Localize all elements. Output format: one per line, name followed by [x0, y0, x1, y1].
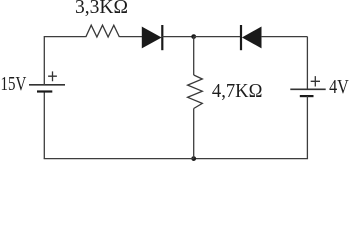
battery 15V positive plate (long) — [29, 84, 65, 86]
node A junction dot top — [191, 34, 196, 39]
wire bottom left — [44, 158, 194, 160]
svg-text:3,3KΩ: 3,3KΩ — [75, 0, 128, 18]
resistor 4,7K vertical — [188, 75, 203, 109]
svg-text:4,7KΩ: 4,7KΩ — [212, 81, 263, 102]
svg-text:4V: 4V — [329, 77, 349, 98]
wire resistor to diode D1 — [119, 36, 142, 38]
plus sign left battery — [48, 71, 57, 81]
wire D2 to top-right corner — [261, 36, 307, 38]
node B junction dot bottom — [191, 156, 196, 161]
wire left rail up to battery — [43, 92, 45, 159]
wire node A to diode D2 — [194, 36, 241, 38]
wire left battery up to top-left corner — [43, 36, 45, 85]
diode D1 triangle — [142, 27, 160, 47]
diode D2 cathode bar — [240, 25, 242, 50]
wire right rail down to battery — [306, 37, 308, 90]
resistor 3,3K horizontal — [86, 25, 120, 37]
wire bottom right — [194, 158, 308, 160]
wire mid branch node A to resistor — [193, 37, 195, 75]
wire right battery to bottom-right corner — [306, 96, 308, 159]
diode D1 cathode bar — [161, 25, 163, 50]
wire top-left horizontal — [44, 36, 86, 38]
wire D1 to node A — [162, 36, 193, 38]
battery 4V positive plate (long) — [290, 88, 325, 90]
battery 4V negative plate (short) — [300, 95, 314, 97]
battery 15V negative plate (short) — [37, 90, 52, 92]
svg-text:15V: 15V — [1, 74, 27, 95]
diode D2 triangle — [243, 27, 261, 47]
plus sign right battery — [311, 76, 320, 86]
wire resistor to node B — [193, 109, 195, 159]
